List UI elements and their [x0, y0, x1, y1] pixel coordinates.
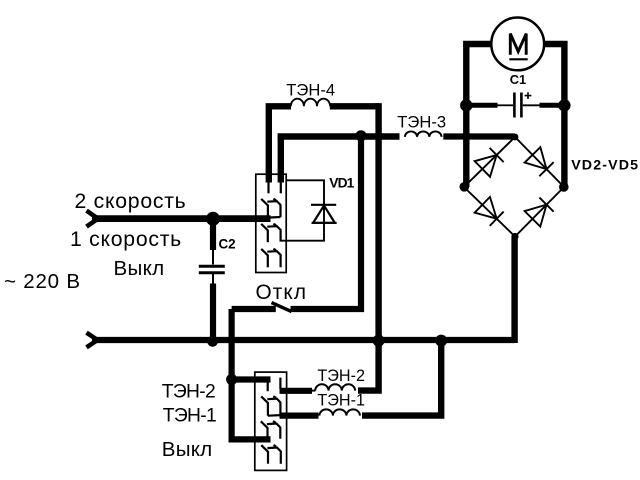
node H junction dot C1 right: [558, 99, 570, 111]
diode VD1 triangle: [313, 206, 335, 223]
motor M1 left lead: [466, 44, 492, 187]
inductor ТЭН-2: [315, 384, 355, 390]
motor U1 circle: [491, 18, 544, 71]
diode VD1 cathode bar: [311, 204, 336, 206]
node B junction dot C2/wire2: [207, 336, 218, 347]
wire C2 upper lead: [210, 219, 216, 250]
wire C1 left lead: [466, 103, 497, 108]
contact S1.3: [261, 249, 280, 267]
switch block S2 (lower) rectangle: [255, 372, 287, 470]
motor letter M: [510, 34, 526, 55]
svg-text:ТЭН-2: ТЭН-2: [317, 367, 365, 385]
node bridge right dot: [559, 182, 569, 192]
wire ТЭН-4 left vertical: [269, 106, 291, 182]
inductor ТЭН-4: [291, 99, 330, 107]
svg-text:VD2-VD5: VD2-VD5: [571, 157, 639, 173]
contact S2.2 (closed D to ТЭН-1): [261, 396, 280, 415]
motor M1 right lead: [544, 44, 565, 187]
svg-text:ТЭН-4: ТЭН-4: [286, 81, 335, 100]
inductor ТЭН-1: [319, 409, 360, 415]
svg-text:Выкл: Выкл: [162, 438, 213, 461]
svg-text:VD1: VD1: [329, 176, 354, 191]
svg-text:C2: C2: [219, 237, 236, 252]
svg-text:Выкл: Выкл: [114, 257, 165, 280]
wire branch to bottom block pin1: [232, 376, 271, 382]
arrow input 2: [87, 333, 98, 348]
wire C2 thin lead lower: [212, 274, 214, 285]
switch block S1 (upper) rectangle: [256, 174, 286, 272]
node E junction dot x378/lower rail: [373, 335, 385, 347]
svg-text:ТЭН-2: ТЭН-2: [162, 382, 215, 403]
wire input line 1 (2 скорость): [92, 215, 271, 222]
node bridge top dot: [512, 134, 519, 141]
wire switched line y136 horizontal: [278, 133, 400, 139]
svg-text:1 скорость: 1 скорость: [70, 228, 182, 251]
wire C1 thin lead left: [497, 104, 513, 106]
contact S2.3: [261, 421, 281, 439]
contact S1.2 (to VD1 loop): [261, 224, 280, 242]
capacitor C1 polarity plus: [525, 92, 532, 99]
svg-text:ТЭН-1: ТЭН-1: [317, 391, 365, 409]
node F junction dot x441/lower rail: [435, 335, 447, 347]
pin S1 top 2: [280, 181, 282, 193]
wire vertical x361 to Откл switch: [291, 136, 362, 309]
wire ТЭН-4 right to vertical drop: [330, 103, 379, 109]
wire C1 right lead: [540, 103, 565, 108]
wire C1 thin lead right: [523, 104, 540, 106]
wire C2 lower lead: [210, 284, 216, 340]
pin S1 top 1: [267, 181, 269, 193]
wire ТЭН-3 right to bridge top: [443, 133, 515, 139]
arrow input 1: [87, 211, 99, 227]
capacitor C2: [199, 266, 225, 272]
node D junction dot x231: [226, 374, 237, 385]
wire input line 2 (lower rail): [92, 337, 515, 343]
node bridge bottom dot: [511, 233, 518, 240]
diode VD4 bottom-left: [475, 197, 504, 226]
motor underline: [509, 58, 527, 60]
wire ТЭН-2 thin lead: [311, 390, 315, 392]
wire C2 thin lead upper: [212, 249, 214, 265]
diode VD2 top-left: [475, 148, 504, 177]
node C junction dot x361: [355, 130, 366, 141]
svg-text:~ 220 В: ~ 220 В: [4, 270, 81, 293]
diode VD1 base line: [312, 222, 337, 224]
wire bridge bottom to lower rail: [511, 237, 517, 344]
node A junction dot wire1/C2: [206, 212, 220, 226]
capacitor C1 plates: [514, 93, 521, 118]
svg-text:ТЭН-3: ТЭН-3: [397, 112, 446, 131]
wire Откл vertical down to bottom block: [232, 309, 271, 439]
contact S2.4: [261, 445, 281, 464]
contact S1.1 (closed D): [261, 199, 280, 218]
diode bridge edges: [464, 137, 564, 237]
inductor ТЭН-3: [405, 131, 442, 137]
diode VD5 bottom-right: [525, 198, 554, 227]
svg-text:ТЭН-1: ТЭН-1: [163, 405, 216, 426]
node G junction dot C1 left: [460, 99, 472, 111]
svg-text:2 скорость: 2 скорость: [75, 190, 187, 213]
node bridge left dot: [460, 182, 470, 192]
wire ТЭН-2 exit from block: [280, 388, 313, 394]
wire switched line y136 left vertical: [278, 137, 284, 183]
wire VD1 loop: [281, 180, 324, 240]
wire ТЭН-1 right up to lower rail: [362, 341, 441, 416]
wire Откл left lead: [232, 306, 276, 312]
wire ТЭН-1 exit from block: [280, 413, 319, 419]
svg-text:Откл: Откл: [256, 281, 308, 304]
svg-text:C1: C1: [510, 72, 526, 87]
diode VD3 top-right: [525, 147, 554, 176]
wire long vertical x378 (ТЭН-4/ТЭН-2 feed): [358, 103, 379, 391]
contact S2.1 pins: [268, 378, 281, 392]
switch SA1 Откл lever: [272, 303, 292, 312]
